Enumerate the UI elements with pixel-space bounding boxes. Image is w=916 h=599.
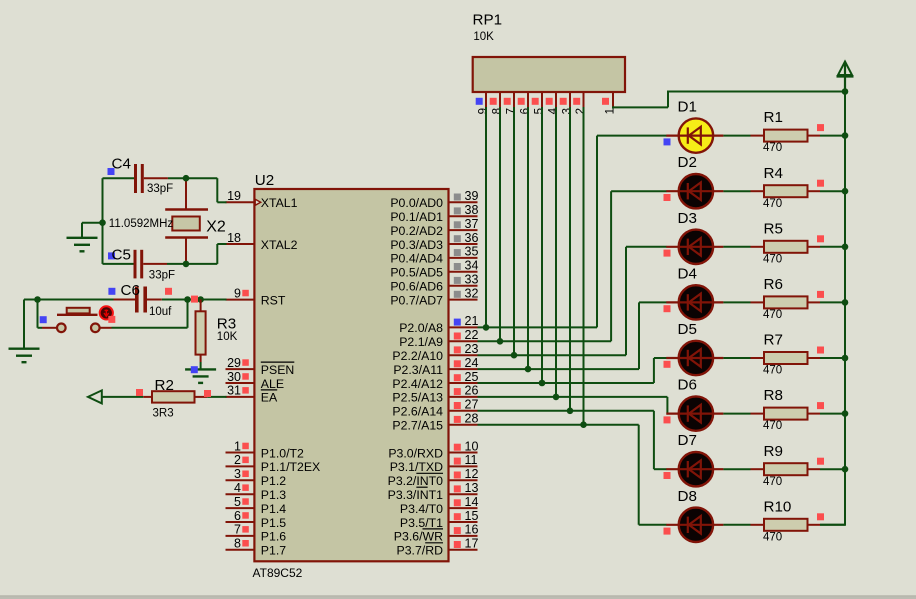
U2 pin 16 (P3.6/WR) bbox=[394, 523, 479, 544]
svg-text:C6: C6 bbox=[121, 282, 140, 299]
U2 pin 7 (P1.6) bbox=[226, 523, 287, 544]
svg-text:R7: R7 bbox=[764, 332, 783, 349]
svg-text:470: 470 bbox=[763, 253, 782, 265]
U2 pin 22 (P2.1/A9) bbox=[399, 328, 478, 349]
svg-text:15: 15 bbox=[465, 509, 479, 523]
U2 pin 34 (P0.5/AD5) bbox=[390, 259, 478, 280]
wire button branch bbox=[38, 300, 188, 328]
svg-text:P3.6/WR: P3.6/WR bbox=[394, 530, 443, 544]
svg-text:34: 34 bbox=[465, 259, 479, 273]
svg-text:13: 13 bbox=[465, 481, 479, 495]
wire R6 to VCC rail bbox=[820, 301, 845, 303]
wire R10 to VCC rail bbox=[820, 524, 845, 526]
R3 value label 10K bbox=[217, 331, 238, 343]
resistor R5 bbox=[751, 235, 825, 253]
wire D5 to R7 bbox=[723, 357, 750, 359]
wire C5 row to XTAL2 pin18 bbox=[103, 244, 227, 264]
svg-text:5: 5 bbox=[534, 108, 546, 114]
wire P2.0 to RP1 and LED riser bbox=[478, 136, 667, 328]
resistor R7 bbox=[751, 347, 825, 365]
RP1 pin 8 bbox=[490, 92, 504, 114]
svg-text:R2: R2 bbox=[155, 377, 174, 394]
wire R4 to VCC rail bbox=[820, 190, 845, 192]
svg-text:D4: D4 bbox=[678, 265, 697, 282]
svg-text:6: 6 bbox=[234, 509, 241, 523]
node marker R2 left bbox=[136, 389, 143, 396]
junction X2 bottom bbox=[183, 261, 190, 268]
junction R5 rail bbox=[842, 244, 849, 251]
wire P2.7 to RP1 and LED riser bbox=[478, 425, 667, 525]
wire D2 to R4 bbox=[723, 190, 750, 192]
R6 reference label bbox=[764, 276, 783, 293]
svg-text:3R3: 3R3 bbox=[153, 408, 174, 420]
svg-text:19: 19 bbox=[227, 189, 241, 203]
svg-text:P3.1/TXD: P3.1/TXD bbox=[390, 460, 443, 474]
svg-text:P2.1/A9: P2.1/A9 bbox=[399, 335, 443, 349]
wire RP1 pin 4 column bbox=[555, 107, 557, 397]
svg-text:3: 3 bbox=[562, 108, 574, 114]
U2 pin 15 (P3.5/T1) bbox=[400, 509, 479, 530]
U2 pin 10 (P3.0/RXD) bbox=[388, 439, 478, 460]
junction P2.5 RP1 column bbox=[553, 394, 560, 401]
X2 value label 11.0592MHz bbox=[109, 218, 174, 230]
svg-text:P2.0/A8: P2.0/A8 bbox=[399, 321, 443, 335]
svg-text:470: 470 bbox=[763, 309, 782, 321]
D2 reference label bbox=[678, 154, 697, 171]
svg-text:18: 18 bbox=[227, 231, 241, 245]
node marker R2 right bbox=[204, 390, 211, 397]
resistor R2 bbox=[143, 391, 207, 402]
wire RP1 pin1 to VCC rail bbox=[612, 92, 845, 109]
U2 pin 33 (P0.6/AD6) bbox=[390, 273, 478, 294]
R9 reference label bbox=[764, 443, 783, 460]
svg-text:3: 3 bbox=[234, 467, 241, 481]
svg-text:17: 17 bbox=[465, 537, 479, 551]
R4 value label 470 bbox=[763, 198, 782, 210]
svg-text:24: 24 bbox=[465, 356, 479, 370]
junction P2.4 RP1 column bbox=[539, 380, 546, 387]
resistor R6 bbox=[751, 291, 825, 309]
resistor R3 bbox=[196, 300, 206, 363]
U2 pin 38 (P0.1/AD1) bbox=[390, 203, 478, 224]
svg-text:7: 7 bbox=[234, 523, 241, 537]
svg-text:P0.5/AD5: P0.5/AD5 bbox=[390, 266, 443, 280]
U2 reference label bbox=[255, 172, 274, 189]
U2 pin 31 (EA) bbox=[226, 384, 279, 405]
svg-text:470: 470 bbox=[763, 420, 782, 432]
svg-text:P0.0/AD0: P0.0/AD0 bbox=[390, 196, 443, 210]
R3 reference label bbox=[217, 315, 236, 332]
wire D1 to R1 bbox=[723, 135, 750, 137]
D4 reference label bbox=[678, 265, 697, 282]
svg-text:470: 470 bbox=[763, 476, 782, 488]
junction P2.1 RP1 column bbox=[497, 338, 504, 345]
R5 value label 470 bbox=[763, 253, 782, 265]
svg-text:RP1: RP1 bbox=[473, 12, 503, 29]
capacitor C5 bbox=[108, 250, 167, 279]
svg-text:33pF: 33pF bbox=[147, 183, 173, 195]
U2 pin 18 (XTAL2) bbox=[226, 231, 298, 252]
svg-text:P1.5: P1.5 bbox=[261, 516, 286, 530]
resistor R8 bbox=[751, 402, 825, 420]
C6 value label 10uf bbox=[149, 306, 172, 318]
U2 pin 37 (P0.2/AD2) bbox=[390, 217, 478, 238]
bottom window edge strip bbox=[0, 595, 916, 599]
U2 pin 8 (P1.7) bbox=[226, 537, 287, 558]
svg-text:R6: R6 bbox=[764, 276, 783, 293]
svg-text:P1.6: P1.6 bbox=[261, 530, 286, 544]
wire D8 to R10 bbox=[723, 524, 750, 526]
resistor R9 bbox=[751, 458, 825, 476]
RP1 value label 10K bbox=[473, 31, 494, 43]
microcontroller U2 AT89C52 body bbox=[254, 189, 448, 561]
junction RST left bbox=[34, 296, 41, 303]
U2 pin 12 (P3.2/INT0) bbox=[388, 467, 479, 488]
D7 reference label bbox=[678, 432, 697, 449]
wire R3 to ground bbox=[200, 362, 202, 369]
U2 part label AT89C52 bbox=[253, 566, 303, 580]
svg-text:470: 470 bbox=[763, 365, 782, 377]
U2 pin 30 (ALE) bbox=[226, 370, 285, 391]
wire P2.6 to RP1 and LED riser bbox=[478, 411, 667, 469]
C5 reference label bbox=[112, 247, 131, 264]
svg-text:37: 37 bbox=[465, 217, 479, 231]
wire D4 to R6 bbox=[723, 301, 750, 303]
junction R6 rail bbox=[842, 299, 849, 306]
U2 pin 27 (P2.6/A14) bbox=[392, 398, 478, 419]
U2 pin 2 (P1.1/T2EX) bbox=[226, 453, 321, 474]
svg-text:AT89C52: AT89C52 bbox=[253, 566, 303, 580]
R7 reference label bbox=[764, 332, 783, 349]
svg-text:ALE: ALE bbox=[261, 377, 284, 391]
C4 value label 33pF bbox=[147, 183, 173, 195]
wire D7 to R9 bbox=[723, 468, 750, 470]
RP1 pin 4 bbox=[546, 92, 560, 114]
X2 reference label bbox=[206, 218, 226, 235]
junction R7 rail bbox=[842, 355, 849, 362]
U2 pin 1 (P1.0/T2) bbox=[226, 439, 305, 460]
svg-text:P0.4/AD4: P0.4/AD4 bbox=[390, 252, 443, 266]
svg-text:P0.3/AD3: P0.3/AD3 bbox=[390, 238, 443, 252]
R2 reference label bbox=[155, 377, 174, 394]
C5 value label 33pF bbox=[149, 270, 175, 282]
svg-text:9: 9 bbox=[478, 108, 490, 114]
svg-text:P1.2: P1.2 bbox=[261, 474, 286, 488]
wire RST net bbox=[24, 300, 227, 349]
junction P2.2 RP1 column bbox=[511, 352, 518, 359]
wire P2.4 to RP1 and LED riser bbox=[478, 358, 667, 383]
RP1 reference label bbox=[473, 12, 503, 29]
svg-text:XTAL2: XTAL2 bbox=[261, 238, 298, 252]
U2 pin 35 (P0.4/AD4) bbox=[390, 245, 478, 266]
U2 pin 25 (P2.4/A12) bbox=[392, 370, 478, 391]
svg-text:P3.3/INT1: P3.3/INT1 bbox=[388, 488, 444, 502]
resistor R1 bbox=[751, 124, 825, 142]
svg-text:1: 1 bbox=[234, 439, 241, 453]
wire VCC vertical rail bbox=[820, 92, 846, 525]
svg-text:36: 36 bbox=[465, 231, 479, 245]
svg-text:8: 8 bbox=[234, 537, 241, 551]
R6 value label 470 bbox=[763, 309, 782, 321]
svg-text:P1.3: P1.3 bbox=[261, 488, 286, 502]
RP1 pin 1 bbox=[602, 92, 617, 114]
svg-text:6: 6 bbox=[520, 108, 532, 114]
U2 pin 13 (P3.3/INT1) bbox=[388, 481, 479, 502]
resistor R10 bbox=[751, 513, 825, 531]
svg-text:4: 4 bbox=[548, 107, 560, 114]
LED D5 bbox=[664, 341, 724, 375]
push button RESET bbox=[40, 306, 116, 332]
junction P2.0 RP1 column bbox=[483, 324, 490, 331]
R5 reference label bbox=[764, 220, 783, 237]
LED D6 bbox=[664, 396, 724, 430]
svg-text:P2.5/A13: P2.5/A13 bbox=[392, 391, 443, 405]
RP1 pin 2 bbox=[573, 92, 587, 114]
wire RP1 pin 6 column bbox=[527, 107, 529, 369]
C6 reference label bbox=[121, 282, 140, 299]
svg-text:33: 33 bbox=[465, 273, 479, 287]
U2 pin 39 (P0.0/AD0) bbox=[390, 189, 478, 210]
U2 pin 29 (PSEN) bbox=[226, 356, 295, 377]
svg-text:D7: D7 bbox=[678, 432, 697, 449]
svg-text:32: 32 bbox=[465, 286, 479, 300]
svg-text:P2.2/A10: P2.2/A10 bbox=[392, 349, 443, 363]
D1 reference label bbox=[678, 99, 697, 116]
R9 value label 470 bbox=[763, 476, 782, 488]
svg-text:P2.6/A14: P2.6/A14 bbox=[392, 405, 443, 419]
wire P2.3 to RP1 and LED riser bbox=[478, 302, 667, 369]
wire D3 to R5 bbox=[723, 246, 750, 248]
node marker R3 bottom bbox=[191, 366, 198, 373]
R8 reference label bbox=[764, 387, 783, 404]
D5 reference label bbox=[678, 321, 697, 338]
svg-text:10uf: 10uf bbox=[149, 306, 172, 318]
junction R4 rail bbox=[842, 188, 849, 195]
svg-text:11.0592MHz: 11.0592MHz bbox=[109, 218, 174, 230]
junction R8 rail bbox=[842, 410, 849, 417]
U2 pin 11 (P3.1/TXD) bbox=[390, 453, 478, 474]
U2 pin 26 (P2.5/A13) bbox=[392, 384, 478, 405]
R4 reference label bbox=[764, 165, 783, 182]
LED D1 bbox=[664, 118, 724, 152]
svg-text:35: 35 bbox=[465, 245, 479, 259]
resistor pack RP1 body bbox=[473, 57, 625, 92]
svg-text:PSEN: PSEN bbox=[261, 363, 295, 377]
svg-text:P2.3/A11: P2.3/A11 bbox=[393, 363, 443, 377]
LED D2 bbox=[664, 174, 724, 208]
junction RST button branch bbox=[184, 296, 191, 303]
R10 reference label bbox=[764, 498, 792, 515]
R1 value label 470 bbox=[763, 142, 782, 154]
U2 pin 24 (P2.3/A11) bbox=[393, 356, 478, 377]
junction R1 rail bbox=[842, 132, 849, 139]
ground symbol left bbox=[67, 238, 98, 252]
svg-text:2: 2 bbox=[575, 108, 587, 114]
svg-text:R4: R4 bbox=[764, 165, 783, 182]
svg-text:P1.7: P1.7 bbox=[261, 544, 286, 558]
junction P2.7 RP1 column bbox=[580, 421, 587, 428]
U2 XTAL1 clock input marker bbox=[255, 199, 261, 205]
svg-text:XTAL1: XTAL1 bbox=[261, 196, 298, 210]
U2 pin 9 (RST) bbox=[226, 286, 286, 307]
wire P2.5 to RP1 and LED riser bbox=[478, 397, 668, 414]
svg-text:D2: D2 bbox=[678, 154, 697, 171]
svg-text:P0.6/AD6: P0.6/AD6 bbox=[390, 280, 443, 294]
U2 pin 23 (P2.2/A10) bbox=[392, 342, 478, 363]
ground symbol R3 bbox=[185, 369, 216, 383]
svg-text:R3: R3 bbox=[217, 315, 236, 332]
node marker R3 top bbox=[191, 296, 198, 303]
svg-text:R8: R8 bbox=[764, 387, 783, 404]
svg-text:P1.0/T2: P1.0/T2 bbox=[261, 446, 304, 460]
capacitor C4 bbox=[108, 164, 168, 193]
svg-text:D5: D5 bbox=[678, 321, 697, 338]
D6 reference label bbox=[678, 377, 697, 394]
wire RP1 pin 7 column bbox=[513, 107, 515, 355]
U2 pin 3 (P1.2) bbox=[226, 467, 287, 488]
LED D4 bbox=[664, 285, 724, 319]
svg-text:21: 21 bbox=[465, 314, 479, 328]
U2 pin 36 (P0.3/AD3) bbox=[390, 231, 478, 252]
svg-text:9: 9 bbox=[234, 286, 241, 300]
svg-text:R9: R9 bbox=[764, 443, 783, 460]
wire R9 to VCC rail bbox=[820, 468, 845, 470]
wire R7 to VCC rail bbox=[820, 357, 845, 359]
wire RP1 pin 8 column bbox=[499, 107, 501, 341]
svg-text:2: 2 bbox=[234, 453, 241, 467]
svg-text:38: 38 bbox=[465, 203, 479, 217]
U2 pin 4 (P1.3) bbox=[226, 481, 287, 502]
svg-text:4: 4 bbox=[234, 481, 241, 495]
svg-text:P3.0/RXD: P3.0/RXD bbox=[388, 446, 443, 460]
svg-text:R5: R5 bbox=[764, 220, 783, 237]
svg-text:10K: 10K bbox=[217, 331, 238, 343]
svg-text:U2: U2 bbox=[255, 172, 274, 189]
wire EA net bbox=[102, 396, 227, 398]
U2 pin 21 (P2.0/A8) bbox=[399, 314, 478, 335]
svg-text:P3.4/T0: P3.4/T0 bbox=[400, 502, 443, 516]
U2 pin 19 (XTAL1) bbox=[226, 189, 298, 210]
svg-text:D8: D8 bbox=[678, 488, 697, 505]
wire RP1 pin 9 column bbox=[485, 107, 487, 327]
svg-text:P3.5/T1: P3.5/T1 bbox=[400, 516, 443, 530]
R10 value label 470 bbox=[763, 531, 782, 543]
wire D6 to R8 bbox=[723, 413, 750, 415]
D8 reference label bbox=[678, 488, 697, 505]
svg-text:27: 27 bbox=[465, 398, 479, 412]
junction X2 top bbox=[183, 175, 190, 182]
svg-text:P2.4/A12: P2.4/A12 bbox=[392, 377, 443, 391]
U2 pin 17 (P3.7/RD) bbox=[397, 537, 479, 558]
svg-text:P1.4: P1.4 bbox=[261, 502, 286, 516]
resistor R4 bbox=[751, 180, 825, 198]
wire R1 to VCC rail bbox=[820, 135, 845, 137]
U2 pin 32 (P0.7/AD7) bbox=[390, 286, 478, 307]
svg-text:11: 11 bbox=[465, 453, 478, 467]
LED D8 bbox=[664, 508, 724, 542]
LED D7 bbox=[664, 452, 724, 486]
R8 value label 470 bbox=[763, 420, 782, 432]
junction P2.6 RP1 column bbox=[567, 408, 574, 415]
junction RST R3 branch bbox=[197, 296, 204, 303]
input terminal arrow EA bbox=[88, 390, 102, 403]
svg-text:7: 7 bbox=[506, 108, 518, 114]
RP1 pin 3 bbox=[560, 92, 574, 114]
RP1 pin 6 bbox=[518, 92, 532, 114]
LED D3 bbox=[664, 230, 724, 264]
svg-text:P3.7/RD: P3.7/RD bbox=[397, 544, 444, 558]
svg-text:R1: R1 bbox=[764, 109, 783, 126]
svg-text:10: 10 bbox=[465, 439, 479, 453]
power symbol VCC arrow bbox=[837, 62, 854, 93]
wire P2.1 to RP1 and LED riser bbox=[478, 191, 667, 341]
svg-text:470: 470 bbox=[763, 142, 782, 154]
svg-text:P0.1/AD1: P0.1/AD1 bbox=[390, 210, 443, 224]
RP1 pin 9 bbox=[476, 92, 490, 114]
svg-text:EA: EA bbox=[261, 391, 278, 405]
svg-text:39: 39 bbox=[465, 189, 479, 203]
svg-text:14: 14 bbox=[465, 495, 479, 509]
crystal X2 bbox=[165, 178, 208, 264]
RP1 pin 5 bbox=[532, 92, 546, 114]
svg-text:28: 28 bbox=[465, 412, 479, 426]
R1 reference label bbox=[764, 109, 783, 126]
svg-text:P2.7/A15: P2.7/A15 bbox=[392, 419, 443, 433]
U2 pin 6 (P1.5) bbox=[226, 509, 287, 530]
junction P2.3 RP1 column bbox=[525, 366, 532, 373]
wire RP1 pin 2 column bbox=[583, 107, 585, 425]
svg-text:33pF: 33pF bbox=[149, 270, 175, 282]
svg-text:X2: X2 bbox=[206, 218, 226, 235]
svg-text:P0.7/AD7: P0.7/AD7 bbox=[390, 293, 443, 307]
svg-text:12: 12 bbox=[465, 467, 479, 481]
RP1 pin 7 bbox=[504, 92, 518, 114]
U2 pin 5 (P1.4) bbox=[226, 495, 287, 516]
svg-text:P3.2/INT0: P3.2/INT0 bbox=[388, 474, 444, 488]
svg-text:D6: D6 bbox=[678, 377, 697, 394]
wire RP1 pin 3 column bbox=[569, 107, 571, 411]
svg-text:16: 16 bbox=[465, 523, 479, 537]
R2 value label 3R3 bbox=[153, 408, 174, 420]
svg-text:C5: C5 bbox=[112, 247, 131, 264]
wire C4 row to XTAL1 pin19 bbox=[103, 178, 227, 202]
svg-text:26: 26 bbox=[465, 384, 479, 398]
R7 value label 470 bbox=[763, 365, 782, 377]
U2 pin 28 (P2.7/A15) bbox=[392, 412, 478, 433]
ground symbol reset bbox=[9, 349, 40, 363]
svg-text:P1.1/T2EX: P1.1/T2EX bbox=[261, 460, 320, 474]
svg-text:D1: D1 bbox=[678, 99, 697, 116]
svg-text:22: 22 bbox=[465, 328, 479, 342]
junction crystal rail bbox=[99, 219, 106, 226]
svg-text:D3: D3 bbox=[678, 210, 697, 227]
wire R8 to VCC rail bbox=[820, 413, 845, 415]
wire P2.2 to RP1 and LED riser bbox=[478, 247, 667, 355]
svg-text:30: 30 bbox=[227, 370, 241, 384]
svg-text:23: 23 bbox=[465, 342, 479, 356]
svg-text:P0.2/AD2: P0.2/AD2 bbox=[390, 224, 443, 238]
D3 reference label bbox=[678, 210, 697, 227]
junction R9 rail bbox=[842, 466, 849, 473]
junction VCC top bbox=[842, 88, 849, 95]
svg-text:470: 470 bbox=[763, 531, 782, 543]
svg-text:C4: C4 bbox=[112, 155, 131, 172]
svg-text:10K: 10K bbox=[473, 31, 494, 43]
svg-text:RST: RST bbox=[261, 293, 286, 307]
svg-text:470: 470 bbox=[763, 198, 782, 210]
svg-text:R10: R10 bbox=[764, 498, 792, 515]
wire RP1 pin 5 column bbox=[541, 107, 543, 383]
